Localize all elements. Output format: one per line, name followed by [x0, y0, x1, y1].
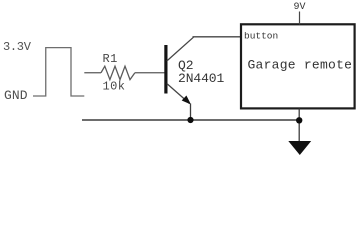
pulse source waveform [33, 48, 84, 96]
box Garage remote [241, 24, 355, 108]
svg-text:9V: 9V [294, 2, 306, 13]
svg-text:10k: 10k [103, 80, 126, 94]
junction [187, 117, 193, 123]
svg-text:R1: R1 [103, 52, 118, 66]
svg-text:Garage remote: Garage remote [248, 57, 353, 72]
junction [296, 117, 302, 123]
wire [190, 104, 192, 121]
resistor R1 [101, 66, 135, 79]
wire [135, 72, 165, 74]
svg-text:2N4401: 2N4401 [178, 71, 225, 86]
ground [288, 141, 311, 155]
wire [82, 119, 299, 121]
svg-text:button: button [244, 31, 278, 42]
transistor Q2 [164, 37, 193, 104]
svg-text:GND: GND [4, 88, 28, 103]
wire [299, 12, 301, 25]
wire [193, 36, 241, 38]
wire [84, 72, 101, 74]
svg-text:3.3V: 3.3V [3, 40, 32, 54]
wire [298, 109, 300, 142]
